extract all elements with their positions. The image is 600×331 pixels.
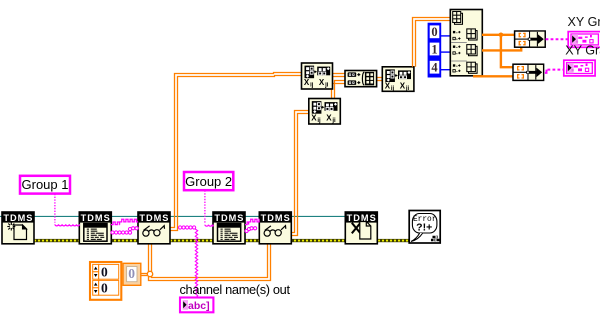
svg-text:ji: ji — [331, 118, 336, 124]
svg-text:ij: ij — [310, 82, 314, 88]
svg-text:?!+: ?!+ — [416, 222, 432, 234]
svg-text:ij: ij — [317, 118, 321, 124]
svg-text:Group 1: Group 1 — [22, 177, 69, 192]
svg-text:XY Graph: XY Graph — [565, 43, 600, 57]
svg-text:X: X — [385, 82, 391, 91]
svg-text:ji: ji — [405, 86, 410, 92]
svg-text:0: 0 — [128, 266, 135, 281]
svg-text:0: 0 — [431, 25, 437, 39]
svg-text:TDMS: TDMS — [3, 213, 33, 223]
svg-text:XY Graph: XY Graph — [568, 15, 600, 29]
svg-text:X: X — [326, 113, 332, 122]
svg-text:X: X — [311, 113, 317, 122]
svg-text:1: 1 — [431, 42, 437, 56]
svg-text:TDMS: TDMS — [81, 213, 111, 223]
svg-text:TDMS: TDMS — [214, 213, 244, 223]
svg-text:TDMS: TDMS — [261, 213, 291, 223]
svg-text:channel name(s) out: channel name(s) out — [180, 282, 291, 297]
svg-text:0: 0 — [101, 265, 108, 280]
svg-text:0: 0 — [101, 281, 108, 296]
svg-text:X: X — [304, 78, 310, 87]
svg-text:abc]: abc] — [188, 300, 210, 312]
svg-text:X: X — [319, 78, 325, 87]
svg-text:TDMS: TDMS — [139, 213, 169, 223]
svg-text:4: 4 — [431, 61, 438, 75]
svg-text:ij: ij — [391, 86, 395, 92]
svg-text:Group 2: Group 2 — [185, 174, 232, 189]
svg-text:ji: ji — [324, 82, 329, 88]
svg-text:X: X — [400, 82, 406, 91]
